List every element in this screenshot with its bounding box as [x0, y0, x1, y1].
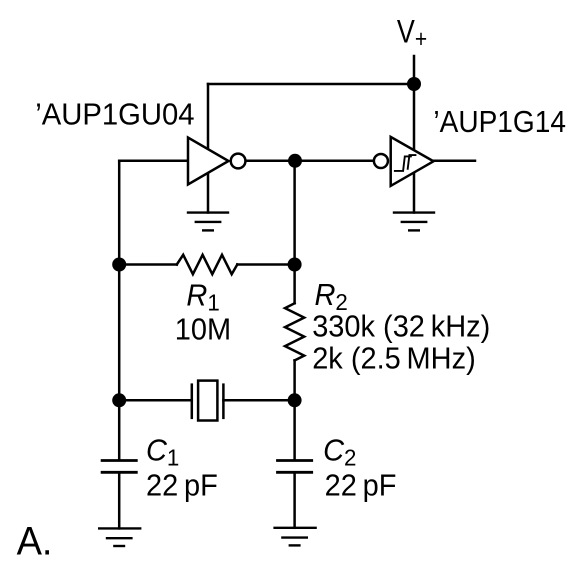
U2 input bubble: [374, 154, 388, 168]
wire C1 lower stub: [118, 472, 121, 528]
wire crystal right stub: [223, 399, 294, 402]
svg-text:10M: 10M: [175, 313, 231, 347]
ground U2: [393, 213, 435, 231]
svg-text:22 pF: 22 pF: [146, 469, 218, 503]
wire U1 output to U2 input: [246, 160, 374, 163]
wire C2 lower stub: [293, 472, 296, 528]
junction dot R1 right / R2 top: [288, 258, 302, 272]
capacitor C2 plates: [276, 461, 313, 473]
junction dot crystal left: [112, 393, 126, 407]
resistor R2 zigzag: [285, 303, 304, 360]
resistor R1 zigzag: [177, 255, 238, 274]
wire R1 right stub: [237, 263, 294, 266]
junction dot crystal right / R2 bottom: [288, 393, 302, 407]
wire right rail lower (R2 to C2): [293, 360, 296, 460]
U2 schmitt hysteresis glyph: [394, 155, 417, 171]
wire R1 left stub: [119, 263, 177, 266]
svg-text:A.: A.: [17, 520, 53, 564]
ground C1: [98, 528, 141, 546]
wire crystal left stub: [119, 399, 192, 402]
junction dot U1 output node: [288, 154, 302, 168]
svg-text:’AUP1G14: ’AUP1G14: [433, 105, 566, 139]
wire U2 output stub: [434, 160, 476, 163]
svg-text:330k (32 kHz): 330k (32 kHz): [312, 310, 490, 344]
svg-text:2k (2.5 MHz): 2k (2.5 MHz): [312, 342, 476, 376]
wire left rail vertical: [118, 161, 121, 461]
crystal Y1: [192, 381, 224, 421]
svg-text:’AUP1GU04: ’AUP1GU04: [35, 98, 194, 132]
inverter U1 'AUP1GU04 triangle: [188, 138, 245, 185]
inverter U2 'AUP1G14 triangle: [374, 137, 434, 186]
U1 output bubble: [231, 154, 246, 169]
wire U1 power vertical: [207, 84, 210, 213]
ground C2: [273, 528, 316, 546]
wire right rail upper (node B to R2): [293, 161, 296, 303]
ground U1: [187, 213, 229, 231]
junction dot V+ node: [407, 77, 421, 91]
wire top rail V+ to U1 power pin: [208, 83, 414, 86]
svg-text:22 pF: 22 pF: [325, 469, 397, 503]
wire U1 input horizontal: [119, 160, 188, 163]
junction dot R1 left: [112, 258, 126, 272]
capacitor C1 plates: [101, 461, 138, 473]
wire V+ drop to U2 power pin: [413, 56, 416, 213]
